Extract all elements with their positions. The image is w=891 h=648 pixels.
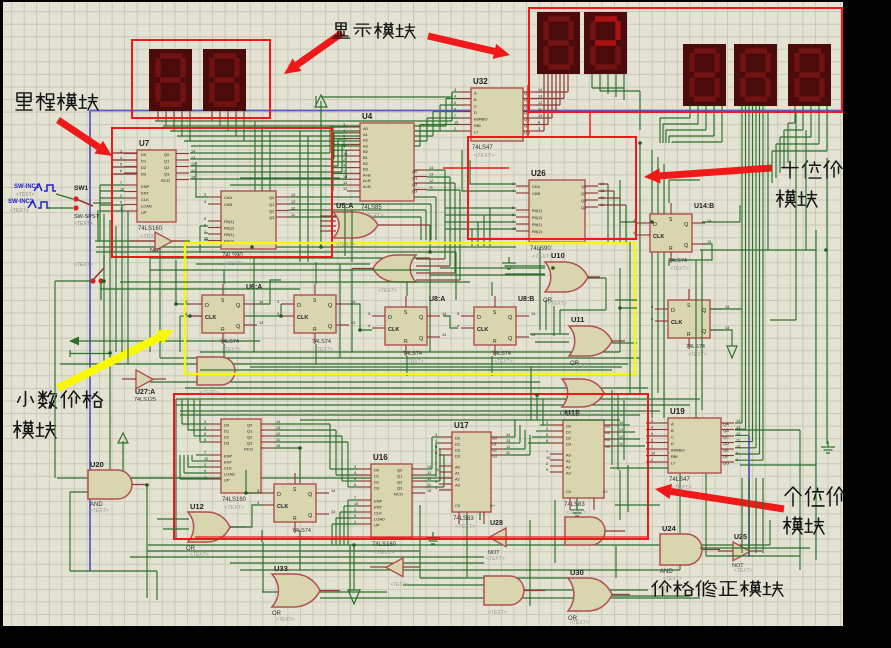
svg-text:Q: Q bbox=[328, 324, 333, 330]
IC U19 bbox=[655, 407, 734, 491]
svg-text:10: 10 bbox=[354, 502, 358, 506]
svg-text:Q3: Q3 bbox=[581, 205, 587, 210]
svg-text:NOT: NOT bbox=[150, 248, 162, 254]
svg-text:3: 3 bbox=[457, 312, 459, 316]
svg-text:9: 9 bbox=[354, 514, 356, 518]
svg-text:13: 13 bbox=[736, 426, 740, 430]
svg-text:LT: LT bbox=[671, 461, 676, 466]
svg-text:U11: U11 bbox=[571, 315, 584, 324]
svg-text:<TEXT>: <TEXT> bbox=[564, 412, 583, 418]
svg-text:7: 7 bbox=[435, 462, 437, 466]
U17 right / bottom wires bbox=[467, 420, 530, 546]
svg-text:6: 6 bbox=[512, 213, 514, 217]
svg-text:D: D bbox=[477, 315, 481, 321]
svg-text:<TEXT>: <TEXT> bbox=[670, 266, 689, 272]
ground bbox=[426, 532, 440, 544]
svg-text:14: 14 bbox=[442, 312, 446, 316]
up arrow terminal top bbox=[315, 95, 327, 247]
svg-text:ENP: ENP bbox=[141, 184, 150, 189]
red wires near U32 bbox=[527, 85, 529, 137]
svg-text:3: 3 bbox=[185, 300, 187, 304]
svg-text:4: 4 bbox=[454, 95, 456, 99]
svg-text:6: 6 bbox=[204, 438, 206, 442]
label lichen-mokuai 里程模块 bbox=[16, 93, 98, 110]
svg-text:U32: U32 bbox=[473, 77, 488, 86]
svg-text:R: R bbox=[404, 339, 408, 345]
svg-text:74LS74: 74LS74 bbox=[292, 528, 311, 534]
svg-text:CLK: CLK bbox=[205, 315, 216, 321]
svg-text:4: 4 bbox=[343, 129, 345, 133]
svg-text:74LS125: 74LS125 bbox=[134, 397, 156, 403]
gate U13 OR bbox=[560, 379, 604, 417]
U18 wires bbox=[528, 425, 645, 510]
svg-text:R: R bbox=[313, 327, 317, 333]
svg-text:U14:B: U14:B bbox=[694, 203, 714, 210]
svg-text:D3: D3 bbox=[224, 441, 230, 446]
svg-text:13: 13 bbox=[725, 326, 729, 330]
svg-text:U20: U20 bbox=[90, 460, 104, 469]
svg-text:74LS74: 74LS74 bbox=[403, 351, 422, 357]
svg-text:74LS90: 74LS90 bbox=[530, 246, 551, 252]
svg-text:D0: D0 bbox=[224, 423, 230, 428]
svg-text:2: 2 bbox=[120, 194, 122, 198]
7seg group1 pins bbox=[158, 111, 244, 118]
wires U4 right outputs down bbox=[427, 170, 460, 230]
svg-text:14: 14 bbox=[531, 312, 535, 316]
svg-text:CLK: CLK bbox=[297, 315, 308, 321]
IC U16 bbox=[358, 453, 425, 556]
svg-text:ENP: ENP bbox=[224, 454, 233, 459]
svg-text:7: 7 bbox=[354, 496, 356, 500]
svg-text:Q3: Q3 bbox=[247, 441, 253, 446]
svg-text:<TEXT>: <TEXT> bbox=[10, 208, 29, 214]
svg-text:R: R bbox=[493, 339, 497, 345]
svg-text:<TEXT>: <TEXT> bbox=[688, 352, 707, 358]
yellow highlight box bbox=[185, 243, 635, 374]
svg-text:12: 12 bbox=[427, 477, 431, 481]
svg-text:U16: U16 bbox=[373, 453, 388, 462]
svg-text:Q0: Q0 bbox=[164, 152, 170, 157]
svg-text:B1: B1 bbox=[363, 155, 369, 160]
svg-text:LOAD: LOAD bbox=[374, 517, 385, 522]
svg-text:UP: UP bbox=[141, 210, 147, 215]
svg-text:Q: Q bbox=[419, 336, 424, 342]
svg-text:4: 4 bbox=[277, 312, 279, 316]
right area long verticals bbox=[640, 112, 816, 418]
svg-text:4: 4 bbox=[204, 200, 206, 204]
svg-text:QF: QF bbox=[723, 454, 729, 459]
svg-text:Q: Q bbox=[236, 303, 241, 309]
gate U24 AND bbox=[660, 524, 720, 575]
svg-text:74LS83: 74LS83 bbox=[564, 502, 585, 508]
svg-text:UP: UP bbox=[224, 478, 230, 483]
svg-text:D: D bbox=[671, 441, 674, 446]
wires U7 left inputs bbox=[95, 153, 124, 241]
svg-text:U10: U10 bbox=[551, 251, 565, 260]
svg-text:<TEXT>: <TEXT> bbox=[374, 550, 395, 556]
svg-text:7: 7 bbox=[454, 114, 456, 118]
svg-text:Q1: Q1 bbox=[269, 202, 275, 207]
svg-text:A2: A2 bbox=[455, 477, 461, 482]
svg-text:2: 2 bbox=[343, 158, 345, 162]
svg-text:7: 7 bbox=[512, 220, 514, 224]
gate U3 buffer bbox=[130, 232, 185, 254]
svg-text:A0: A0 bbox=[455, 465, 461, 470]
label xiaoshu-jiage 小数价格 bbox=[18, 391, 103, 408]
ground bbox=[570, 504, 584, 516]
svg-text:A1: A1 bbox=[363, 132, 369, 137]
svg-text:9: 9 bbox=[120, 201, 122, 205]
svg-text:D2: D2 bbox=[224, 435, 230, 440]
svg-text:13: 13 bbox=[276, 426, 280, 430]
svg-text:Q3: Q3 bbox=[269, 215, 275, 220]
svg-text:3: 3 bbox=[512, 182, 514, 186]
svg-text:4: 4 bbox=[257, 501, 259, 505]
IC U7 bbox=[124, 139, 189, 240]
svg-text:<TEXT>: <TEXT> bbox=[455, 524, 476, 530]
svg-text:S1: S1 bbox=[492, 442, 498, 447]
label xianshi-mokuai 显示模块 bbox=[333, 23, 416, 38]
svg-text:4: 4 bbox=[204, 426, 206, 430]
svg-text:5: 5 bbox=[546, 433, 548, 437]
svg-text:Q2: Q2 bbox=[397, 480, 403, 485]
gate U33 OR bbox=[272, 564, 340, 617]
wires display3 pins down long bundle bbox=[735, 106, 763, 460]
svg-text:Q0: Q0 bbox=[269, 195, 275, 200]
svg-text:Q1: Q1 bbox=[581, 191, 587, 196]
svg-text:<TEXT>: <TEXT> bbox=[378, 288, 397, 294]
svg-text:<TEXT>: <TEXT> bbox=[390, 582, 409, 588]
label mokuai3 模块 bbox=[784, 517, 825, 534]
svg-text:13: 13 bbox=[538, 95, 542, 99]
svg-text:15: 15 bbox=[427, 489, 431, 493]
svg-text:S3: S3 bbox=[605, 444, 611, 449]
svg-text:Q: Q bbox=[508, 315, 513, 321]
svg-text:9: 9 bbox=[546, 468, 548, 472]
svg-text:Q: Q bbox=[684, 222, 689, 228]
svg-text:10: 10 bbox=[343, 152, 347, 156]
svg-text:Q: Q bbox=[702, 308, 707, 314]
svg-text:74LS47: 74LS47 bbox=[669, 477, 690, 483]
svg-text:ENT: ENT bbox=[374, 505, 383, 510]
arrow units price module bbox=[655, 484, 784, 509]
svg-text:4: 4 bbox=[651, 426, 653, 430]
svg-text:74LS74: 74LS74 bbox=[492, 351, 511, 357]
wires U4 left side bbox=[333, 127, 347, 191]
svg-text:Q2: Q2 bbox=[581, 198, 587, 203]
IC U2 7490 bbox=[208, 191, 289, 267]
svg-text:10: 10 bbox=[120, 188, 124, 192]
7seg display group3 digit1 bbox=[683, 44, 726, 106]
svg-text:QE: QE bbox=[524, 117, 530, 122]
IC U32 bbox=[458, 77, 536, 159]
svg-text:13: 13 bbox=[351, 321, 355, 325]
svg-text:13: 13 bbox=[429, 173, 433, 177]
wires display3 digit3 pins down bbox=[772, 106, 827, 444]
svg-text:74LS83: 74LS83 bbox=[453, 516, 474, 522]
yellow arrow decimal price module bbox=[58, 330, 174, 388]
svg-text:A>B: A>B bbox=[363, 184, 371, 189]
svg-text:11: 11 bbox=[191, 169, 195, 173]
gate U28 buffer left bbox=[488, 520, 506, 556]
svg-text:Q: Q bbox=[684, 243, 689, 249]
svg-text:CLK: CLK bbox=[277, 504, 288, 510]
svg-text:<TEXT>: <TEXT> bbox=[548, 301, 567, 307]
svg-text:1: 1 bbox=[204, 475, 206, 479]
svg-text:3: 3 bbox=[354, 465, 356, 469]
svg-text:QE: QE bbox=[723, 448, 729, 453]
IC U15 bbox=[208, 419, 274, 511]
svg-text:<TEXT>: <TEXT> bbox=[486, 556, 505, 562]
svg-text:ENT: ENT bbox=[141, 191, 150, 196]
svg-text:U27:A: U27:A bbox=[135, 389, 155, 396]
svg-text:12: 12 bbox=[506, 445, 510, 449]
svg-text:10: 10 bbox=[512, 227, 516, 231]
wire bus: display1 to U4/U32 top bus bbox=[155, 114, 452, 146]
svg-text:A3: A3 bbox=[363, 143, 369, 148]
svg-text:SW1: SW1 bbox=[74, 185, 88, 192]
svg-text:Q: Q bbox=[419, 315, 424, 321]
svg-text:13: 13 bbox=[600, 189, 604, 193]
svg-text:U7: U7 bbox=[139, 139, 150, 148]
svg-text:14: 14 bbox=[619, 421, 623, 425]
svg-text:11: 11 bbox=[429, 186, 433, 190]
ground bbox=[502, 257, 516, 269]
svg-text:A2: A2 bbox=[363, 138, 369, 143]
U15 outputs right to U16 bbox=[274, 424, 358, 487]
ground bbox=[821, 441, 835, 453]
svg-text:D2: D2 bbox=[374, 480, 380, 485]
svg-text:2: 2 bbox=[546, 462, 548, 466]
svg-text:S1: S1 bbox=[605, 430, 611, 435]
svg-text:14: 14 bbox=[429, 166, 433, 170]
wires U7 outputs to right bbox=[190, 127, 347, 179]
svg-text:2: 2 bbox=[435, 474, 437, 478]
svg-text:D1: D1 bbox=[566, 430, 572, 435]
svg-text:Q1: Q1 bbox=[397, 474, 403, 479]
svg-text:D0: D0 bbox=[566, 424, 572, 429]
svg-text:<TEXT>: <TEXT> bbox=[16, 192, 35, 198]
svg-text:14: 14 bbox=[343, 175, 347, 179]
svg-text:CLK: CLK bbox=[477, 327, 488, 333]
svg-text:R9(1): R9(1) bbox=[532, 222, 543, 227]
svg-text:D2: D2 bbox=[566, 436, 572, 441]
7seg display group3 digit3 bbox=[788, 44, 831, 106]
svg-text:D: D bbox=[474, 110, 477, 115]
up arrow terminal mid-left bbox=[118, 433, 128, 478]
long verticals between U4 and U32 bbox=[255, 96, 316, 262]
bottom long horizontals bbox=[57, 478, 770, 598]
svg-text:13: 13 bbox=[427, 471, 431, 475]
svg-text:12: 12 bbox=[538, 101, 542, 105]
svg-text:13: 13 bbox=[291, 200, 295, 204]
svg-text:Q0: Q0 bbox=[397, 468, 403, 473]
svg-text:BI/RBO: BI/RBO bbox=[671, 448, 685, 453]
svg-text:AND: AND bbox=[660, 569, 673, 575]
svg-text:U8:B: U8:B bbox=[518, 296, 534, 303]
U16 outputs to U17 bbox=[425, 437, 444, 487]
svg-text:D0: D0 bbox=[374, 468, 380, 473]
svg-text:Q: Q bbox=[236, 324, 241, 330]
svg-text:<TEXT>: <TEXT> bbox=[336, 242, 355, 248]
svg-text:7: 7 bbox=[343, 146, 345, 150]
svg-text:R9(2): R9(2) bbox=[532, 229, 543, 234]
IC U18 bbox=[550, 409, 617, 516]
svg-text:7: 7 bbox=[651, 445, 653, 449]
svg-text:13: 13 bbox=[343, 181, 347, 185]
svg-text:3: 3 bbox=[204, 420, 206, 424]
7seg display group2 digit2 bbox=[584, 12, 627, 74]
svg-text:10: 10 bbox=[204, 457, 208, 461]
svg-text:4: 4 bbox=[368, 324, 370, 328]
gate U20 AND bbox=[88, 460, 148, 508]
U16 control pins bbox=[332, 500, 358, 545]
svg-text:QC: QC bbox=[723, 435, 729, 440]
svg-text:4: 4 bbox=[651, 317, 653, 321]
svg-text:Q0: Q0 bbox=[581, 184, 587, 189]
svg-text:74LS47: 74LS47 bbox=[472, 145, 493, 151]
svg-text:<TEXT>: <TEXT> bbox=[572, 364, 591, 370]
svg-text:R0(1): R0(1) bbox=[532, 208, 543, 213]
svg-text:14: 14 bbox=[259, 300, 263, 304]
svg-text:<TEXT>: <TEXT> bbox=[74, 262, 93, 268]
svg-text:13: 13 bbox=[506, 439, 510, 443]
7seg display group2 digit1 bbox=[537, 12, 580, 74]
svg-text:5: 5 bbox=[651, 432, 653, 436]
svg-text:10: 10 bbox=[546, 456, 550, 460]
svg-text:10: 10 bbox=[651, 452, 655, 456]
svg-text:74LS74: 74LS74 bbox=[220, 339, 239, 345]
wires U26 left side bbox=[445, 150, 516, 246]
blue main horizontal wire bbox=[90, 110, 843, 112]
svg-text:ENT: ENT bbox=[224, 460, 233, 465]
svg-text:B: B bbox=[474, 97, 477, 102]
svg-text:4: 4 bbox=[512, 189, 514, 193]
svg-text:3: 3 bbox=[736, 458, 738, 462]
svg-text:74LS160: 74LS160 bbox=[222, 497, 247, 503]
svg-text:<TEXT>: <TEXT> bbox=[190, 552, 209, 558]
svg-text:3: 3 bbox=[454, 88, 456, 92]
svg-text:CLK: CLK bbox=[653, 234, 664, 240]
flip-flop FF-mid bbox=[261, 473, 329, 542]
svg-text:Q: Q bbox=[702, 329, 707, 335]
svg-text:10: 10 bbox=[454, 121, 458, 125]
red wire below display2 bbox=[589, 112, 591, 137]
svg-text:D2: D2 bbox=[141, 165, 147, 170]
svg-text:B: B bbox=[671, 428, 674, 433]
wire verticals from bus down to U32 inputs bbox=[414, 92, 458, 151]
svg-text:<TEXT>: <TEXT> bbox=[494, 359, 513, 365]
svg-text:4: 4 bbox=[546, 427, 548, 431]
svg-text:R0(2): R0(2) bbox=[224, 226, 235, 231]
svg-text:12: 12 bbox=[276, 432, 280, 436]
svg-text:Q1: Q1 bbox=[164, 159, 170, 164]
svg-text:C+: C+ bbox=[603, 489, 609, 494]
wires U26 right side bbox=[598, 184, 626, 242]
svg-text:R: R bbox=[221, 327, 225, 333]
mid long horizontals bbox=[60, 241, 700, 411]
svg-text:3: 3 bbox=[257, 489, 259, 493]
red box mileage module bbox=[112, 128, 332, 257]
svg-text:15: 15 bbox=[276, 444, 280, 448]
svg-text:D1: D1 bbox=[141, 159, 147, 164]
svg-text:CKA: CKA bbox=[224, 195, 233, 200]
svg-text:11: 11 bbox=[276, 438, 280, 442]
svg-text:13: 13 bbox=[259, 321, 263, 325]
flip-flop U8:A bbox=[281, 284, 349, 353]
svg-text:14: 14 bbox=[291, 193, 295, 197]
flip-flop U14:A bbox=[655, 289, 723, 358]
svg-text:D: D bbox=[388, 315, 392, 321]
svg-text:RCO: RCO bbox=[161, 178, 170, 183]
svg-text:12: 12 bbox=[291, 207, 295, 211]
IC U17 bbox=[439, 421, 504, 530]
svg-text:2: 2 bbox=[651, 458, 653, 462]
svg-text:<TEXT>: <TEXT> bbox=[224, 261, 245, 267]
svg-text:5: 5 bbox=[120, 163, 122, 167]
svg-text:5: 5 bbox=[512, 206, 514, 210]
svg-text:RCO: RCO bbox=[394, 492, 403, 497]
svg-text:CLK: CLK bbox=[374, 511, 382, 516]
svg-text:CKB: CKB bbox=[224, 202, 233, 207]
svg-text:8: 8 bbox=[538, 121, 540, 125]
svg-text:Q3: Q3 bbox=[412, 189, 418, 194]
label mokuai2 模块 bbox=[14, 421, 56, 438]
blue vertical wire left bbox=[89, 111, 91, 572]
svg-text:D3: D3 bbox=[374, 486, 380, 491]
svg-text:3: 3 bbox=[343, 123, 345, 127]
svg-text:CLK: CLK bbox=[141, 197, 149, 202]
svg-text:C0: C0 bbox=[455, 503, 461, 508]
switch SW1 bbox=[46, 185, 112, 227]
wires U14:B region bbox=[620, 180, 740, 266]
mid long verticals bbox=[98, 210, 620, 476]
label mokuai 模块 bbox=[777, 190, 818, 207]
svg-text:U19: U19 bbox=[670, 407, 685, 416]
svg-text:CLK: CLK bbox=[671, 320, 682, 326]
svg-text:<TEXT>: <TEXT> bbox=[222, 347, 241, 353]
svg-text:U6:A: U6:A bbox=[246, 284, 262, 291]
svg-text:RBI: RBI bbox=[671, 454, 678, 459]
svg-text:A0: A0 bbox=[363, 126, 369, 131]
svg-text:4: 4 bbox=[435, 439, 437, 443]
red box display module left bbox=[132, 40, 270, 118]
gate TEXT labels bbox=[90, 242, 753, 626]
svg-text:Q2: Q2 bbox=[269, 209, 275, 214]
svg-text:A: A bbox=[474, 91, 477, 96]
svg-text:3: 3 bbox=[633, 219, 635, 223]
svg-text:9: 9 bbox=[343, 164, 345, 168]
wires display2 digit2 down bbox=[592, 74, 640, 130]
svg-text:RBI: RBI bbox=[474, 123, 481, 128]
svg-text:15: 15 bbox=[538, 114, 542, 118]
svg-text:QG: QG bbox=[524, 130, 530, 135]
svg-text:13: 13 bbox=[619, 428, 623, 432]
pulse generator 2 bbox=[8, 199, 50, 214]
svg-text:D: D bbox=[297, 303, 301, 309]
label gewei-jia 个位价 bbox=[785, 487, 845, 506]
svg-text:6: 6 bbox=[354, 483, 356, 487]
FF row interconnect bbox=[176, 260, 492, 376]
svg-text:13: 13 bbox=[442, 333, 446, 337]
svg-text:9: 9 bbox=[204, 469, 206, 473]
svg-text:U24: U24 bbox=[662, 524, 677, 533]
svg-text:QB: QB bbox=[723, 428, 729, 433]
svg-text:2: 2 bbox=[204, 463, 206, 467]
svg-text:<TEXT>: <TEXT> bbox=[74, 221, 93, 227]
svg-text:74LS85: 74LS85 bbox=[361, 205, 382, 211]
flip-flop U14:B bbox=[637, 203, 714, 272]
